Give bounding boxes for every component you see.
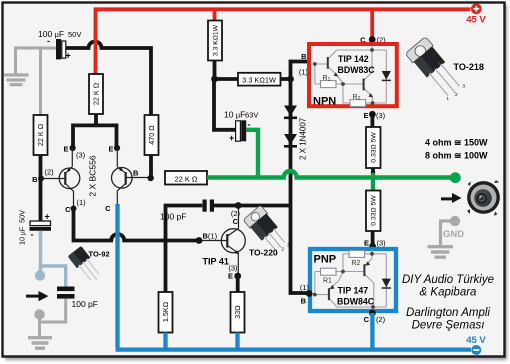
U2 internal wiring (thin gray) bbox=[315, 250, 387, 311]
U2 transistor bars bbox=[329, 264, 365, 300]
node E (3) of NPN module bbox=[369, 111, 376, 118]
node C (2) of NPN module (on red wire) bbox=[369, 36, 376, 43]
svg-text:(1): (1) bbox=[77, 198, 87, 207]
resistor R9 33 ohm bbox=[231, 292, 245, 333]
svg-text:8 ohm ≅ 100W: 8 ohm ≅ 100W bbox=[425, 151, 488, 161]
svg-text:R1: R1 bbox=[323, 75, 331, 83]
svg-text:+: + bbox=[66, 51, 71, 61]
U1 internal nodes bbox=[370, 48, 374, 52]
wire black: R1 down through node B to C2 bbox=[39, 155, 43, 221]
svg-text:R1: R1 bbox=[323, 278, 332, 285]
op module U1 TIP142 red box border bbox=[309, 44, 397, 106]
wire black: TIP41 collector node to 100pF and diode chain bbox=[166, 206, 291, 293]
svg-text:(2): (2) bbox=[376, 315, 386, 324]
input terminal (light blue dot) bbox=[35, 270, 45, 280]
capacitor C3 100pF (compensation, horizontal) bbox=[203, 200, 207, 212]
wire black: diode chain from node B down to PNP module B pin bbox=[291, 79, 310, 293]
svg-text:+: + bbox=[45, 212, 50, 222]
svg-text:E: E bbox=[228, 272, 233, 281]
resistor R2 22K (from +45V to BC556 emitters) bbox=[89, 74, 103, 114]
U1 resistor R2 bbox=[350, 100, 366, 107]
package drawing TO-218 (TIP142/147 case) bbox=[405, 37, 466, 102]
U1 emitter arrows bbox=[334, 72, 339, 76]
capacitor C1 100uF 50V (electrolytic, horizontal) bbox=[56, 39, 61, 59]
capacitor C5 100pF (input filter, vertical) bbox=[57, 287, 75, 292]
svg-text:(3): (3) bbox=[377, 239, 387, 248]
svg-text:B: B bbox=[301, 52, 307, 61]
svg-text:(3): (3) bbox=[76, 151, 86, 160]
wire gray: GND terminal to ground bbox=[441, 221, 456, 245]
speaker LS1 bbox=[467, 180, 500, 216]
svg-text:(2): (2) bbox=[45, 168, 55, 177]
U1 resistor R1 bbox=[321, 81, 337, 88]
U1 internal diode bbox=[382, 71, 391, 80]
svg-text:0.33Ω 5W: 0.33Ω 5W bbox=[371, 132, 378, 163]
svg-text:TIP 142: TIP 142 bbox=[338, 54, 369, 64]
resistor R4 470 ohm bbox=[145, 115, 159, 155]
svg-text:TO-220: TO-220 bbox=[249, 248, 278, 258]
node R5/R7/C4 junction bbox=[211, 76, 218, 83]
op module U2 TIP147 blue box border bbox=[310, 249, 396, 311]
ground terminal (gray dot) bbox=[34, 309, 44, 319]
wire black: Q1 collector to TIP41 base node, hop over blue rail bbox=[74, 208, 200, 241]
resistor R7 3.3K 1W (horizontal) bbox=[238, 73, 281, 86]
node B junction (R7/diodes/NPN B) bbox=[287, 76, 294, 83]
svg-text:BDW84C: BDW84C bbox=[337, 297, 375, 307]
arrow emitter Q1 (PNP, points to base) bbox=[67, 168, 71, 172]
svg-text:50V: 50V bbox=[68, 30, 81, 39]
U1 internal wiring (thin gray) bbox=[315, 46, 387, 103]
svg-text:4 ohm ≅ 150W: 4 ohm ≅ 150W bbox=[425, 138, 488, 148]
U2 resistor R1 bbox=[321, 268, 337, 275]
svg-text:C: C bbox=[65, 205, 71, 214]
transistor Q2 BC556 (right) bbox=[112, 148, 151, 204]
svg-text:B: B bbox=[32, 175, 38, 184]
svg-text:E: E bbox=[63, 145, 68, 154]
svg-text:C: C bbox=[364, 315, 370, 324]
ground GND3 (speaker return) bbox=[428, 247, 454, 258]
svg-text:-: - bbox=[47, 36, 50, 46]
svg-text:10 µF 50V: 10 µF 50V bbox=[18, 210, 27, 245]
svg-text:TIP 147: TIP 147 bbox=[338, 286, 369, 296]
node E of Q2 bbox=[114, 145, 120, 151]
svg-text:3.3 KΩ1W: 3.3 KΩ1W bbox=[242, 76, 276, 85]
wire blue: R9 to rail bbox=[235, 333, 239, 349]
node TIP41 emitter bbox=[234, 273, 241, 280]
svg-text:+: + bbox=[229, 133, 234, 143]
wire green: output rail to R10/R11 junction bbox=[371, 171, 375, 191]
svg-text:E: E bbox=[108, 145, 113, 154]
svg-text:63V: 63V bbox=[245, 111, 258, 120]
diode D1 1N4007 bbox=[284, 106, 297, 117]
wire green: output node rail with hop over diode wire bbox=[207, 171, 455, 178]
package drawing TO-92 (BC556 case) bbox=[68, 246, 104, 285]
svg-text:33Ω: 33Ω bbox=[233, 305, 242, 319]
resistor R10 0.33 ohm 5W bbox=[366, 127, 381, 168]
U2 internal diode bbox=[382, 279, 391, 288]
U2 internal nodes bbox=[370, 252, 374, 256]
svg-text:100 µF: 100 µF bbox=[38, 29, 64, 39]
svg-text:2 X 1N4007: 2 X 1N4007 bbox=[299, 117, 308, 160]
wire black: R7 to node B of NPN module bbox=[281, 62, 309, 80]
node B (2) of Q1 bbox=[38, 176, 44, 182]
svg-text:TIP 41: TIP 41 bbox=[203, 257, 229, 267]
svg-text:2 X BC556: 2 X BC556 bbox=[88, 155, 98, 196]
transistor Q1 BC556 (left) bbox=[44, 148, 80, 209]
svg-text:R2: R2 bbox=[353, 94, 361, 102]
svg-text:& Kapibara: & Kapibara bbox=[420, 287, 477, 299]
wire black: R2 to emitter rail of Q1,Q2 BC556 bbox=[73, 114, 117, 148]
node TIP41 collector / C3 junction bbox=[235, 202, 242, 209]
resistor R1 22K (input bias) bbox=[34, 115, 48, 155]
svg-text:Devre Şeması: Devre Şeması bbox=[412, 320, 485, 332]
svg-text:PNP: PNP bbox=[314, 254, 337, 266]
arrow input signal bbox=[26, 295, 39, 298]
svg-text:Darlington Ampli: Darlington Ampli bbox=[406, 307, 490, 319]
node C (2) of PNP module bbox=[369, 310, 376, 317]
wire black: NPN E to R10 bbox=[370, 112, 374, 127]
wire blue: PNP C to rail bbox=[370, 313, 374, 348]
resistor R8 1.5K bbox=[159, 292, 173, 333]
U2 emitter arrows (PNP) bbox=[330, 285, 335, 289]
svg-text:E: E bbox=[364, 239, 369, 248]
+45V terminal (plus circle) bbox=[471, 3, 482, 14]
wire black: R4 to node at R6 bbox=[149, 155, 153, 178]
wire +45V rail red: corner at R2, to +45V terminal, stubs to R5 and NPN C bbox=[96, 9, 471, 74]
wire blue: R8 to rail bbox=[163, 333, 167, 349]
wire light-blue: C2 to input terminal and C5 bbox=[41, 231, 66, 287]
wire black: C1 to R4 470ohm, hop over red +45V wire bbox=[66, 42, 151, 116]
svg-text:GND: GND bbox=[443, 229, 464, 240]
svg-text:1.5KΩ: 1.5KΩ bbox=[161, 301, 170, 322]
svg-text:100 pF: 100 pF bbox=[160, 212, 186, 222]
svg-text:10 µF: 10 µF bbox=[224, 110, 245, 120]
svg-text:3.3 KΩ1W: 3.3 KΩ1W bbox=[213, 24, 220, 56]
svg-text:R2: R2 bbox=[352, 260, 361, 267]
svg-text:E: E bbox=[363, 111, 368, 120]
svg-text:(1): (1) bbox=[300, 283, 310, 292]
node TIP41 base bbox=[196, 237, 203, 244]
svg-text:22 K Ω: 22 K Ω bbox=[36, 123, 45, 146]
svg-text:TO-92: TO-92 bbox=[89, 250, 110, 259]
svg-text:0.33Ω 5W: 0.33Ω 5W bbox=[371, 195, 378, 226]
svg-text:22 K Ω: 22 K Ω bbox=[92, 82, 101, 105]
svg-text:(3): (3) bbox=[376, 111, 386, 120]
output terminal (green dot) bbox=[450, 172, 461, 183]
diode D2 1N4007 bbox=[284, 134, 297, 145]
svg-text:B: B bbox=[301, 297, 307, 306]
wire black: R11 to PNP E bbox=[371, 231, 375, 247]
svg-text:TO-218: TO-218 bbox=[454, 62, 484, 72]
transistor Q3 TIP 41 (NPN driver) bbox=[202, 206, 245, 276]
-45V terminal (minus circle) bbox=[471, 345, 481, 355]
arrow to speaker bbox=[441, 197, 453, 200]
resistor R5 3.3K 1W (vertical from +45V) bbox=[208, 21, 222, 61]
wire gray: GND1 to C1 negative, with branch to R1 22K bbox=[16, 48, 57, 115]
svg-text:NPN: NPN bbox=[313, 96, 336, 108]
node E of Q1 bbox=[70, 145, 76, 151]
package drawing TO-220 (TIP41 case) bbox=[243, 205, 291, 255]
arrow emitter Q3 (NPN, points out) bbox=[235, 250, 240, 254]
arrow emitter Q2 (PNP, points to base) bbox=[119, 168, 123, 172]
ground GND2 bottom-left bbox=[28, 338, 52, 349]
svg-text:45 V: 45 V bbox=[466, 15, 486, 26]
svg-text:BDW83C: BDW83C bbox=[338, 65, 376, 75]
wire blue: -45V rail from Q2 collector to terminal bbox=[116, 204, 472, 350]
wire gray: C5 to ground terminal bbox=[40, 299, 66, 336]
resistor R6 22K (feedback, horizontal) bbox=[165, 171, 207, 185]
svg-text:45 V: 45 V bbox=[466, 335, 486, 346]
GND output terminal (gray dot) bbox=[450, 216, 460, 226]
svg-text:B: B bbox=[133, 169, 139, 178]
svg-text:C: C bbox=[233, 217, 239, 226]
svg-text:B(1): B(1) bbox=[203, 232, 218, 241]
svg-text:22 K Ω: 22 K Ω bbox=[175, 174, 198, 183]
svg-text:DIY Audio Türkiye: DIY Audio Türkiye bbox=[402, 274, 494, 286]
U1 transistor bars bbox=[328, 57, 364, 90]
wire black: Q3 emitter to R9 bbox=[236, 276, 240, 292]
resistor R11 0.33 ohm 5W bbox=[366, 191, 381, 232]
wire green: C4 to output rail bbox=[246, 130, 258, 178]
svg-text:-: - bbox=[31, 230, 34, 240]
wire black: R5 to node, to R7 and C4 bbox=[214, 60, 238, 130]
U2 resistor R2 bbox=[349, 250, 365, 257]
svg-text:C: C bbox=[105, 204, 111, 213]
svg-text:100 pF: 100 pF bbox=[72, 299, 98, 309]
capacitor C4 10uF 63V (electrolytic, horizontal) bbox=[236, 121, 241, 141]
node E (3) of PNP module bbox=[369, 243, 376, 250]
capacitor C2 10uF 50V (electrolytic, vertical) bbox=[30, 221, 51, 226]
svg-text:470 Ω: 470 Ω bbox=[147, 125, 156, 145]
wire black: R10 to green rail bbox=[371, 168, 375, 173]
node C (1) of Q1 bbox=[71, 206, 77, 212]
node junction R4/R6/Q2 base bbox=[148, 175, 154, 181]
ground GND1 top-left bbox=[4, 75, 29, 85]
node B (1) of PNP module bbox=[306, 290, 313, 297]
